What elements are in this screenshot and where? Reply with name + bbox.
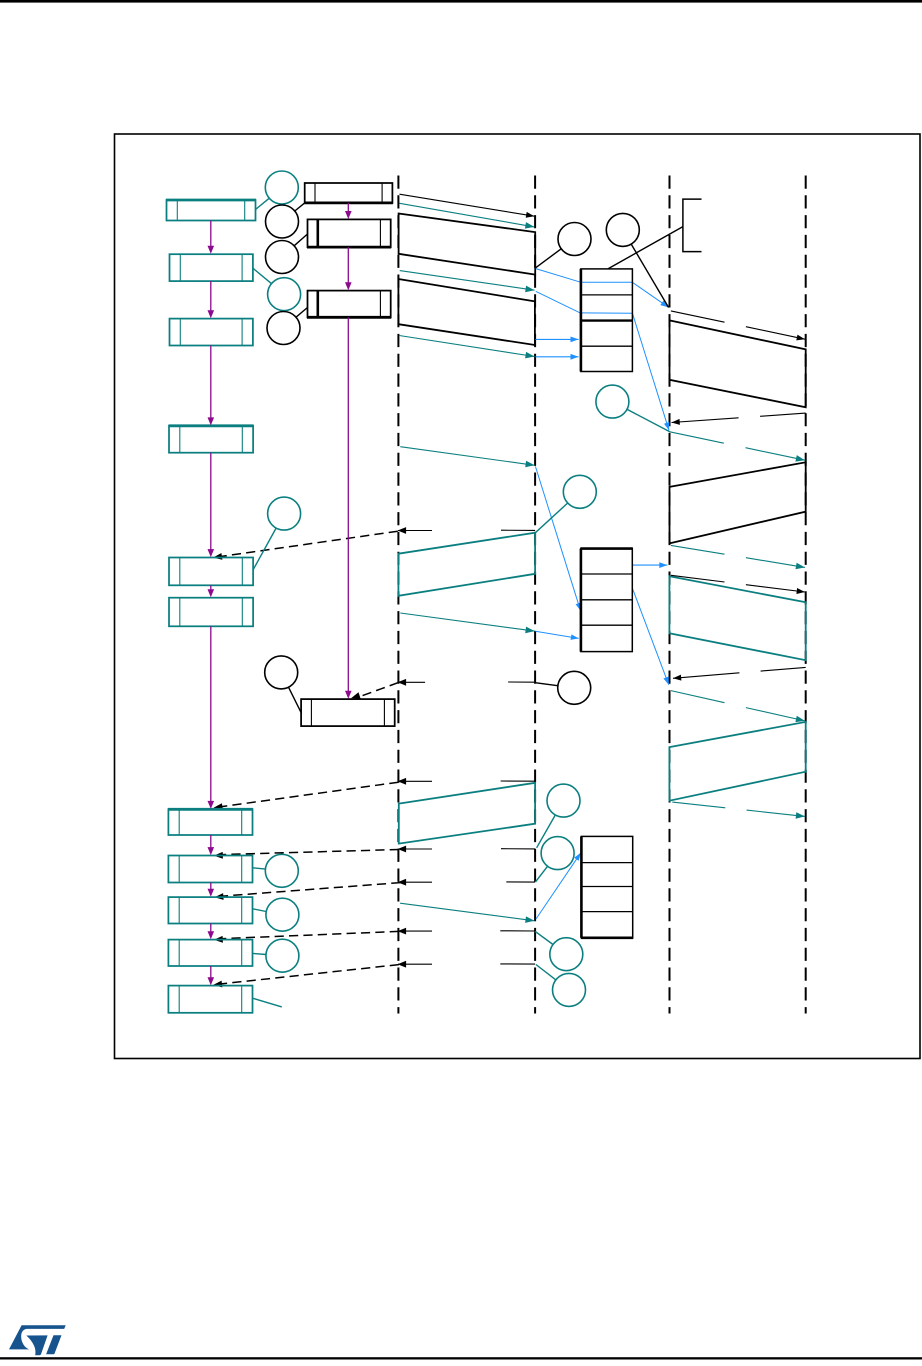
callout circle black k5 bbox=[606, 213, 639, 246]
purple arrow TB4-TB5 bbox=[210, 453, 212, 551]
message m13 (teal, L1 to L2) bbox=[400, 447, 534, 466]
return message rm5 (L2 to L1) bbox=[506, 881, 535, 883]
callout circle teal c12 bbox=[266, 939, 299, 972]
flow box TB11 (teal) bbox=[168, 986, 252, 1013]
flow box TB9 (teal) bbox=[168, 897, 252, 923]
flow box BB4 (black) bbox=[301, 699, 395, 726]
page top rule bbox=[0, 0, 922, 3]
band E (teal, lifeline3-4) bbox=[669, 576, 805, 660]
leader c12-TB10 (teal) bbox=[253, 953, 267, 954]
callout circle teal c10 bbox=[265, 854, 298, 887]
message m10 (black, L4 to L3 leftward) bbox=[761, 667, 806, 671]
callout circle teal c9 bbox=[553, 973, 586, 1006]
flow box TB3 (teal) bbox=[170, 319, 253, 346]
callout circle teal c2 bbox=[268, 278, 301, 311]
leader c5-bandG (teal) bbox=[535, 503, 567, 533]
blue link b2 (L2 to table T1 row2 to L3) bbox=[536, 291, 633, 313]
callout circle teal c3 bbox=[268, 497, 301, 530]
purple arrow BB1-BB2 bbox=[347, 203, 349, 213]
leader k1-BB1 (black) bbox=[295, 203, 305, 211]
band D (black, lifeline3-4, up-slant) bbox=[670, 462, 806, 543]
message m5 (black, L3 to L4) bbox=[671, 311, 725, 322]
callout circle black k7 bbox=[558, 671, 591, 704]
callout circle teal c8 bbox=[550, 938, 583, 971]
return message rm1 (L2 to L1) bbox=[501, 529, 535, 531]
return message rm7 (L2 to L1) bbox=[500, 963, 535, 965]
leader k4-L2 (black) bbox=[536, 249, 562, 268]
flow box TB4 (teal) bbox=[169, 426, 253, 453]
message m6 (black, L4 to L3 leftward) bbox=[760, 413, 806, 416]
purple arrow TB2-TB3 bbox=[210, 281, 212, 312]
purple arrow BB3-BB4 (long) bbox=[347, 317, 349, 692]
message m15 (teal, L1 to L2) bbox=[400, 903, 534, 921]
message m11 (teal, L3 to L4) bbox=[671, 691, 725, 703]
dashed arrow d1 (L1 to box TB5) bbox=[220, 531, 398, 556]
blue arrow b4 (L2 to table T1 row4) bbox=[535, 356, 578, 358]
purple arrow TB10-TB11 bbox=[210, 966, 212, 979]
purple arrow TB5-TB6 bbox=[210, 585, 212, 590]
band F (teal, lifeline3-4, up-slant) bbox=[669, 722, 805, 801]
leader c11-TB9 (teal) bbox=[253, 909, 267, 912]
callout circle teal c4 bbox=[596, 385, 629, 418]
flow box TB7 (teal) bbox=[168, 809, 252, 835]
leader k2-BB2 (black) bbox=[294, 234, 307, 246]
blue link b8 (L2 to table T2 row4) bbox=[535, 631, 578, 638]
purple arrow BB2-BB3 bbox=[347, 247, 349, 284]
message m9 (black, L3 to L4) bbox=[671, 575, 725, 582]
flow box BB1 (black) bbox=[305, 183, 393, 203]
flow box BB3 (black) bbox=[308, 291, 391, 318]
leader c10-TB8 (teal) bbox=[253, 868, 266, 869]
band A (black, lifeline1-2) bbox=[399, 214, 536, 275]
message m1 (black, L1 to L2) bbox=[400, 194, 535, 216]
leader k5-L3 (black) bbox=[631, 244, 668, 307]
leader k6-BB4 (black) bbox=[289, 687, 302, 713]
blue link b6 (table T2 to L3) bbox=[632, 588, 669, 685]
flow box TB8 (teal) bbox=[168, 856, 252, 883]
return message rm6 (L2 to L1) bbox=[500, 930, 535, 932]
callout circle teal c6 bbox=[547, 784, 580, 817]
leader c8-L2 (teal) bbox=[535, 931, 553, 944]
leader c2-TB2 (teal) bbox=[253, 268, 272, 283]
blue arrow b3 (L2 to table T1 row3) bbox=[535, 338, 578, 340]
dashed arrow d2 (L1 to box BB4) bbox=[358, 683, 398, 698]
message m2 (teal, L1 to L2) bbox=[400, 203, 535, 227]
ST logo glyph S-tail bbox=[26, 1335, 47, 1355]
flow box TB6 (teal) bbox=[169, 598, 253, 627]
purple arrow TB7-TB8 bbox=[210, 835, 212, 849]
band B (black, lifeline1-2) bbox=[398, 279, 535, 345]
lifeline 2 (dashed) bbox=[534, 176, 536, 1014]
lifeline 4 (dashed) bbox=[805, 176, 807, 1014]
callout circle black k4 bbox=[558, 223, 591, 256]
dashed arrow d7 (L1 to box TB11) bbox=[220, 965, 399, 984]
flow box TB2 (teal) bbox=[170, 254, 253, 281]
figure frame bbox=[115, 134, 921, 1059]
state table T2 bbox=[581, 549, 632, 652]
blue link b7 (L2 to table T2 row3) bbox=[535, 466, 580, 610]
return message rm2 (L2 to L1) bbox=[508, 681, 535, 683]
purple arrow TB6-TB7 bbox=[210, 626, 212, 802]
leader c9-L2 (teal) bbox=[536, 965, 556, 980]
flow box TB1 (teal) bbox=[167, 200, 256, 221]
message m4 (teal, L1 to L2) bbox=[399, 336, 534, 357]
callout circle black k3 bbox=[267, 312, 300, 345]
purple arrow TB8-TB9 bbox=[210, 883, 212, 891]
return message rm3 (L2 to L1) bbox=[501, 780, 535, 782]
leader bracket-T1 (black) bbox=[608, 227, 683, 269]
leader k3-BB3 (black) bbox=[296, 308, 308, 318]
message m12 (teal, L3 to L4) bbox=[672, 802, 725, 808]
message m14 (teal, L1 to L2) bbox=[400, 613, 534, 631]
bracket label (top right) bbox=[683, 199, 702, 252]
purple arrow TB3-TB4 bbox=[210, 346, 212, 419]
leader c6-L2 (teal) bbox=[537, 815, 556, 848]
callout circle teal c11 bbox=[266, 898, 299, 931]
dashed arrow d5 (L1 to box TB9) bbox=[221, 883, 400, 897]
lifeline 3 (dashed) bbox=[669, 176, 671, 1014]
callout circle black k6 bbox=[265, 656, 298, 689]
band H (teal, lifeline1-2) bbox=[399, 783, 535, 844]
band G (teal, lifeline1-2, up-slant) bbox=[398, 533, 535, 596]
callout circle black k2 bbox=[266, 241, 299, 274]
callout circle black k1 bbox=[266, 205, 299, 238]
purple arrow TB9-TB10 bbox=[210, 924, 212, 933]
message m7 (teal, circle to L4 via L3) bbox=[627, 409, 670, 432]
flow box TB10 (teal) bbox=[168, 940, 252, 966]
purple arrow TB1-TB2 bbox=[210, 221, 212, 248]
callout circle teal c5 bbox=[563, 475, 596, 508]
dashed arrow d4 (L1 to box TB8) bbox=[221, 850, 399, 855]
lifeline 1 (dashed) bbox=[397, 176, 399, 1014]
callout circle teal c7 bbox=[541, 837, 574, 870]
leader c3-TB5 (teal) bbox=[253, 528, 276, 570]
leader k7-L2 (black) bbox=[535, 683, 558, 686]
blue arrow b5 (table T2 row1 to L3) bbox=[632, 564, 667, 566]
return message rm4 (L2 to L1) bbox=[501, 848, 535, 850]
flow box BB2 (black) bbox=[308, 219, 391, 247]
message m3 (teal, L1 to L2) bbox=[400, 271, 535, 291]
blue link b9 (L2 to table T3 row1) bbox=[536, 853, 581, 919]
dashed arrow d3 (L1 to box TB7) bbox=[221, 782, 399, 807]
state table T1 bbox=[581, 269, 633, 372]
callout circle teal c1 bbox=[265, 171, 298, 204]
ST logo glyph S bbox=[9, 1325, 66, 1349]
leader stub TB11 (teal) bbox=[253, 998, 282, 1007]
flow box TB5 (teal) bbox=[169, 558, 253, 586]
state table T3 bbox=[581, 836, 632, 937]
leader c7-L2 (teal) bbox=[536, 866, 548, 882]
leader c1-TB1 (teal) bbox=[256, 198, 270, 209]
message m8 (teal, L3 to L4) bbox=[671, 545, 725, 554]
dashed arrow d6 (L1 to box TB10) bbox=[221, 931, 399, 938]
page bottom rule bbox=[0, 1357, 922, 1359]
band C (black, lifeline3-4) bbox=[670, 320, 806, 407]
blue link b1 (L2 to table T1 row1 to L3) bbox=[536, 269, 633, 283]
ST logo glyph T bbox=[46, 1335, 61, 1354]
